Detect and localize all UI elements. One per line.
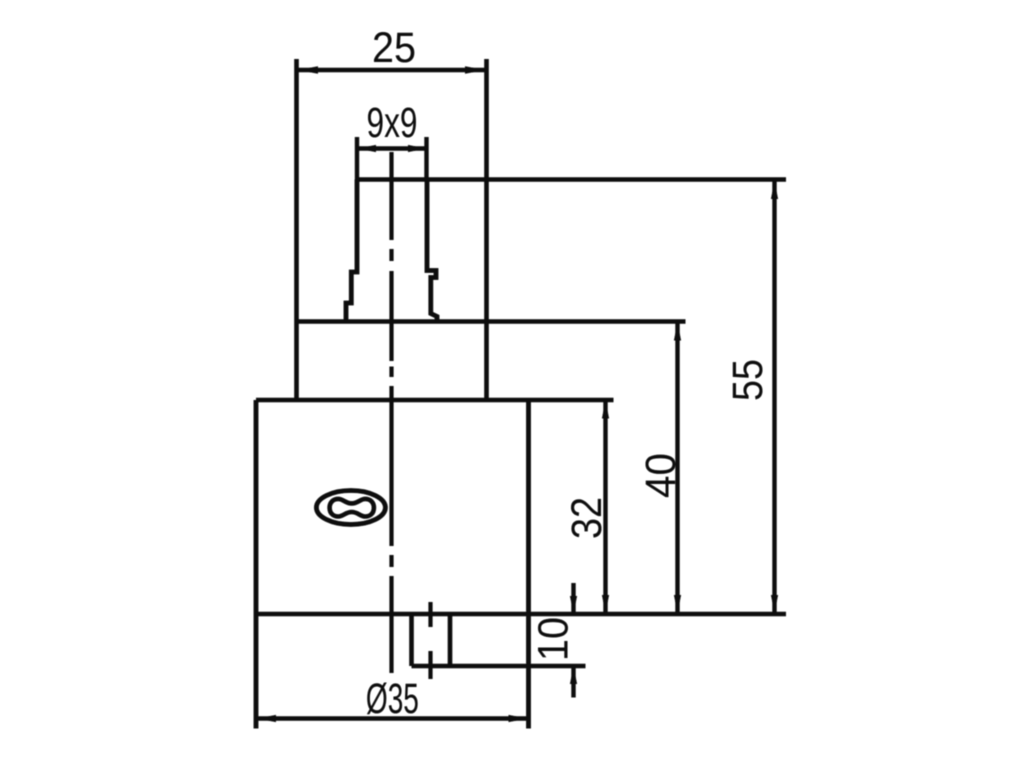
dim 10 upper leader	[571, 583, 575, 614]
body left edge	[254, 400, 259, 729]
arrow O35 right	[509, 715, 528, 722]
svg-text:Ø35: Ø35	[366, 675, 419, 723]
stem right profile	[427, 180, 437, 323]
notch left edge	[409, 614, 414, 666]
main centerline	[389, 152, 393, 673]
logo inner peanut	[330, 499, 374, 517]
body top line (32 dim reference)	[256, 398, 614, 403]
arrow 9x9 left	[358, 145, 377, 152]
notch centerline upper dash	[428, 602, 432, 627]
dim 55 line	[772, 180, 776, 614]
svg-text:10: 10	[530, 617, 578, 661]
dim 9x9 line	[357, 146, 427, 150]
dim 9x9 ext left	[355, 137, 359, 180]
arrow 10 down	[570, 596, 577, 614]
svg-text:40: 40	[637, 453, 685, 498]
arrow 40 bottom	[674, 595, 681, 613]
arrow 10 up	[570, 667, 577, 685]
arrow 55 top	[771, 181, 778, 199]
dim 32 line	[603, 400, 607, 614]
dim O35 line	[256, 716, 529, 720]
arrow 40 top	[674, 323, 681, 341]
flange top line (40 dim reference)	[297, 319, 686, 324]
notch right edge	[448, 614, 453, 666]
dim 10 lower leader	[571, 667, 575, 698]
flange right edge + 25 extension line	[484, 59, 489, 400]
stem left profile	[346, 180, 357, 323]
notch centerline lower dash	[428, 651, 432, 679]
dim 25 line	[297, 68, 486, 72]
dim 9x9 ext right	[424, 137, 428, 180]
arrow 9x9 right	[408, 145, 426, 152]
arrow O35 left	[257, 715, 276, 722]
dim 40 line	[675, 322, 679, 614]
body right edge	[526, 400, 531, 729]
svg-text:32: 32	[563, 497, 611, 539]
arrow 32 top	[602, 401, 609, 419]
svg-text:25: 25	[372, 24, 416, 72]
arrow 25 right	[465, 66, 485, 74]
flange left edge + 25 extension line	[294, 59, 299, 400]
svg-text:55: 55	[724, 359, 772, 401]
arrow 25 left	[298, 66, 318, 74]
svg-text:9x9: 9x9	[367, 99, 418, 147]
wire top reference line (55 dim, stem top edge)	[356, 177, 786, 182]
logo outer ellipse	[316, 491, 385, 525]
notch bottom line (10 dim reference)	[412, 664, 586, 669]
body bottom line (55/40/32/10 dim reference)	[256, 612, 786, 617]
arrow 55 bottom	[771, 595, 778, 613]
arrow 32 bottom	[602, 595, 609, 613]
